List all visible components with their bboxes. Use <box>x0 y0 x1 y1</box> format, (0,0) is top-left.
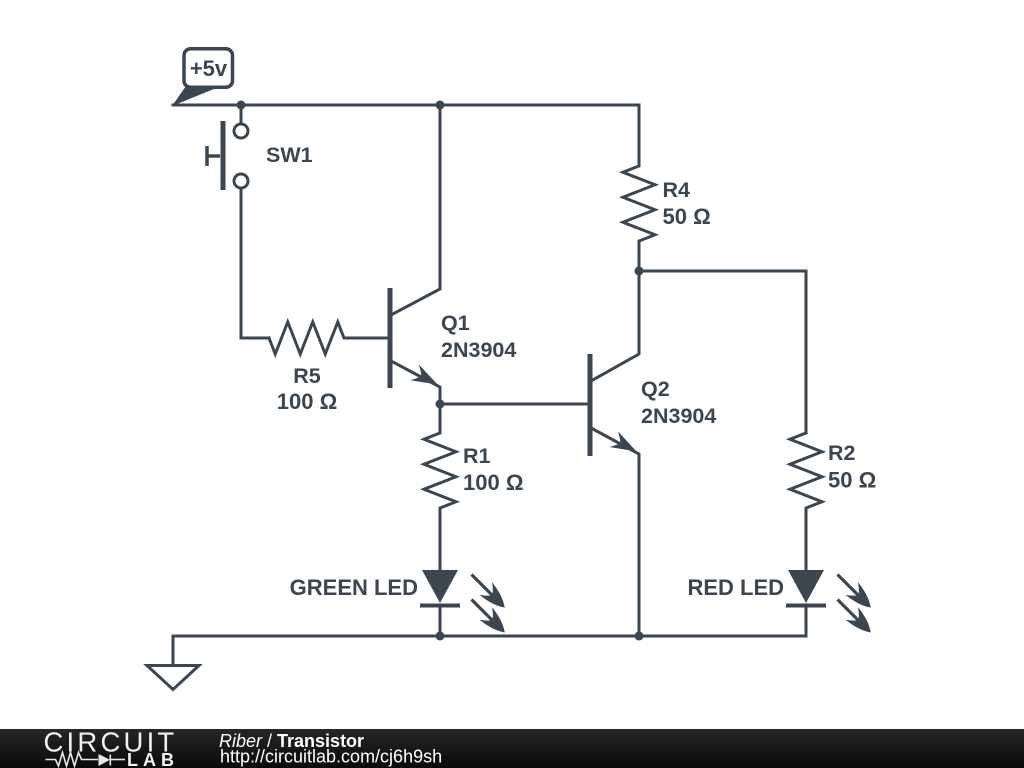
svg-text:SW1: SW1 <box>266 143 313 167</box>
svg-text:50 Ω: 50 Ω <box>663 204 711 229</box>
svg-text:http://circuitlab.com/cj6h9sh: http://circuitlab.com/cj6h9sh <box>220 747 442 767</box>
svg-text:R1: R1 <box>463 444 491 468</box>
svg-text:R4: R4 <box>663 178 691 202</box>
svg-text:R2: R2 <box>828 441 856 465</box>
svg-text:2N3904: 2N3904 <box>641 404 716 428</box>
svg-text:100 Ω: 100 Ω <box>277 389 337 414</box>
svg-text:100 Ω: 100 Ω <box>463 470 523 495</box>
svg-text:2N3904: 2N3904 <box>441 338 516 362</box>
svg-text:RED LED: RED LED <box>687 575 784 600</box>
svg-text:LAB: LAB <box>127 750 179 768</box>
svg-text:Q1: Q1 <box>441 311 470 335</box>
svg-text:50 Ω: 50 Ω <box>828 468 876 493</box>
svg-text:Q2: Q2 <box>641 377 670 401</box>
svg-text:GREEN LED: GREEN LED <box>290 575 418 600</box>
svg-text:+5v: +5v <box>190 56 228 81</box>
svg-text:R5: R5 <box>293 364 321 388</box>
